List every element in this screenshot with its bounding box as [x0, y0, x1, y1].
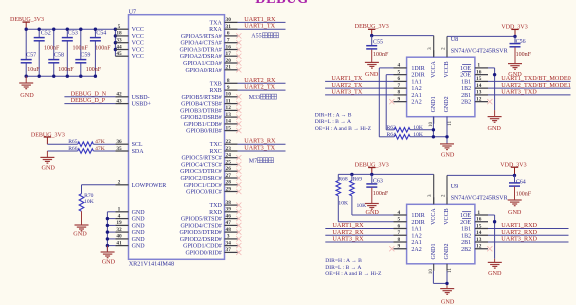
svg-text:GPIOC4/CTSC#: GPIOC4/CTSC#: [181, 163, 222, 169]
wire U8 pin5 to R62 branch: [386, 74, 393, 76]
wire lead C53 lower: [66, 41, 68, 76]
wire cap bus to U7 VCC column: [114, 29, 116, 56]
pin 10 GND1 U8: [428, 96, 437, 127]
svg-text:TXD: TXD: [209, 203, 222, 209]
svg-text:100nF: 100nF: [516, 191, 532, 197]
capacitor C55 plates: [366, 46, 377, 49]
svg-text:10K: 10K: [84, 199, 94, 205]
wire R66 right lead: [93, 150, 115, 152]
svg-text:A55: A55: [251, 34, 261, 40]
wire lead C52 lower: [38, 41, 40, 76]
wire UART2_RXD: [488, 234, 569, 236]
pin 14 GPIOB1/CDB# U7 right: [184, 119, 238, 128]
capacitor C58 plates: [48, 60, 59, 63]
svg-text:3: 3: [427, 194, 433, 197]
svg-text:10: 10: [226, 92, 232, 98]
pin 9 RXB U7 right: [209, 85, 237, 94]
svg-text:6: 6: [227, 31, 230, 37]
pin 7 1A2 U8: [394, 83, 422, 92]
wire U9 OE down: [494, 215, 496, 259]
svg-text:10K: 10K: [413, 125, 423, 131]
junction dot VCCB rail: [513, 35, 516, 38]
wire C64 to ground: [514, 187, 516, 200]
wire C55 top lead: [371, 36, 373, 45]
svg-text:TXC: TXC: [210, 142, 222, 148]
svg-text:12: 12: [476, 96, 482, 102]
wire gnd pin tee y=245.6: [107, 245, 115, 247]
wire UART3_RXD: [488, 241, 569, 243]
junction dot U9 OE: [493, 220, 496, 223]
pin 2 VCCB U8: [440, 47, 450, 78]
svg-text:C63: C63: [373, 179, 383, 185]
note A55 core debug: [251, 33, 278, 40]
junction dot VCCA rail U9 b: [370, 173, 373, 176]
resistor R65 body: [78, 142, 94, 147]
pin 31 RXA U7 right: [209, 24, 237, 33]
svg-text:USBD-: USBD-: [132, 95, 150, 101]
svg-text:48: 48: [226, 227, 232, 233]
svg-text:1B1: 1B1: [461, 79, 471, 85]
junction dot R62/GND1: [432, 128, 435, 131]
svg-text:2A1: 2A1: [411, 93, 421, 99]
svg-text:9: 9: [397, 96, 400, 102]
pin 7 GPIOA4/CTSA# U7 right: [180, 38, 237, 47]
wire R70 to ground: [81, 211, 83, 225]
pin 13 2B1 U9: [461, 237, 488, 246]
wire C56 to ground: [514, 48, 516, 64]
svg-text:6: 6: [397, 223, 400, 229]
svg-text:100nF: 100nF: [73, 45, 89, 51]
svg-text:8: 8: [397, 90, 400, 96]
svg-text:U8: U8: [451, 36, 459, 43]
svg-text:2: 2: [118, 180, 121, 186]
pin 46 GPIOD5/RTSD# U7 right: [181, 213, 238, 222]
svg-text:UART3_TXD: UART3_TXD: [501, 89, 537, 96]
pin 5 2DIR U8: [394, 69, 425, 78]
wire U8 OE down: [494, 68, 496, 110]
svg-text:DIR=L : B → A: DIR=L : B → A: [315, 119, 351, 125]
svg-text:GND: GND: [488, 270, 502, 277]
svg-text:28: 28: [226, 180, 232, 186]
wire UART3_TX: [238, 150, 286, 152]
svg-text:GND2: GND2: [444, 244, 450, 260]
wire VCCB rail U9: [447, 174, 515, 176]
capacitor C54 plates: [90, 38, 101, 41]
wire UART2_TXD/BT_MODE1: [488, 87, 571, 89]
pin 20 GPIOA1/CDA# U7 right: [183, 58, 237, 67]
svg-text:GPIOB5/RTSB#: GPIOB5/RTSB#: [181, 95, 221, 101]
svg-text:24: 24: [226, 153, 232, 159]
pin 5 VCC U7 left: [115, 24, 144, 33]
wire U8 pin1 OE stub: [488, 67, 495, 69]
svg-text:36: 36: [116, 139, 122, 145]
svg-text:GPIOA3/DTRA#: GPIOA3/DTRA#: [179, 48, 221, 54]
pin 16 2OE U9: [460, 217, 488, 226]
svg-text:R64: R64: [387, 132, 397, 138]
svg-text:12: 12: [226, 105, 232, 111]
wire UART3_RX: [238, 143, 286, 145]
no-connect X marks U7 unused GPIO pins: [236, 33, 241, 255]
svg-text:GPIOD1/CDD#: GPIOD1/CDD#: [183, 244, 222, 250]
svg-text:1DIR: 1DIR: [411, 66, 424, 72]
wire U7 gnd bus: [106, 212, 108, 252]
junction dot R64/GND2: [445, 135, 448, 138]
ground decoupling: [19, 83, 33, 89]
pin 37 GPIOD0/RID# U7 right: [185, 247, 237, 256]
wire VCCB rail U8: [447, 35, 515, 37]
svg-text:GND: GND: [441, 152, 455, 159]
wire VCCB drop to U9 pin2: [446, 175, 448, 204]
pin 47 GPIOD4/CTSD# U7 right: [180, 220, 237, 229]
pin 15 1B1 U8: [461, 76, 488, 85]
wire bottom cap bus: [26, 75, 95, 77]
svg-text:GND: GND: [20, 92, 34, 99]
pin 26 GPIOC3/DTRC# U7 right: [180, 166, 237, 175]
svg-text:C59: C59: [80, 52, 90, 58]
svg-text:35: 35: [116, 146, 122, 152]
svg-text:1B1: 1B1: [461, 227, 471, 233]
pin 5 2DIR U9: [394, 217, 425, 226]
svg-text:GND: GND: [508, 209, 522, 216]
pin 13 GPIOB2/DSRB# U7 right: [180, 112, 237, 121]
svg-text:GPIOA1/CDA#: GPIOA1/CDA#: [183, 61, 222, 67]
pin 39 RXD U7 right: [209, 207, 237, 216]
svg-text:25: 25: [226, 159, 232, 165]
pin 40 GND U7 left: [115, 234, 145, 243]
svg-text:RXD: RXD: [209, 210, 222, 216]
wire UART3_TXD: [488, 94, 571, 96]
svg-text:4: 4: [397, 63, 400, 69]
wire UART2_RX: [238, 82, 286, 84]
resistor R66 body: [78, 149, 94, 154]
wire lead C54 lower: [94, 41, 96, 76]
pin 24 GPIOC5/RTSC# U7 right: [181, 153, 237, 162]
pin 9 2A2 U8: [394, 96, 422, 105]
svg-text:2DIR: 2DIR: [411, 73, 424, 79]
svg-text:44: 44: [116, 44, 122, 50]
wire lead C58 upper: [53, 29, 55, 59]
svg-text:20: 20: [226, 58, 232, 64]
svg-text:15: 15: [476, 223, 482, 229]
pin 32 GND U7 left: [115, 227, 145, 236]
svg-text:R62: R62: [387, 125, 397, 131]
svg-text:10K: 10K: [338, 200, 348, 206]
svg-text:17: 17: [226, 51, 232, 57]
svg-text:41: 41: [116, 240, 122, 246]
wire R69 top lead: [351, 174, 353, 180]
wire R65 left lead: [47, 143, 77, 145]
wire lead C52 upper: [38, 29, 40, 37]
svg-text:42: 42: [116, 92, 122, 98]
wire lead C57 upper: [25, 29, 27, 59]
pin 27 GPIOC2/DSRC# U7 right: [180, 173, 237, 182]
svg-text:U9: U9: [451, 183, 459, 190]
pin 8 2A1 U9: [394, 237, 422, 246]
svg-text:VCCB: VCCB: [444, 61, 450, 77]
svg-text:27: 27: [226, 173, 232, 179]
svg-text:26: 26: [226, 166, 232, 172]
wire C64 top lead: [514, 175, 516, 182]
wire UART3_RX to U9: [325, 241, 393, 243]
wire LOWPOWER: [82, 184, 116, 186]
power bar DEBUG_3V3 U9: [368, 168, 375, 175]
wire R64 left lead: [379, 136, 394, 138]
pin 44 VCC U7 left: [115, 44, 144, 53]
svg-text:3: 3: [227, 234, 230, 240]
svg-text:C54: C54: [96, 31, 106, 37]
svg-text:GPIOC5/RTSC#: GPIOC5/RTSC#: [181, 156, 221, 162]
pin 8 TXB U7 right: [210, 78, 238, 87]
svg-text:34: 34: [226, 240, 232, 246]
svg-text:14: 14: [476, 83, 482, 89]
svg-text:14: 14: [476, 230, 482, 236]
wire lead C53 upper: [66, 29, 68, 37]
pin 1 GND U7 left: [115, 207, 145, 216]
pin 11 GND2 U8: [444, 96, 453, 126]
svg-text:100nF: 100nF: [44, 45, 60, 51]
wire R62 right lead: [410, 129, 433, 131]
pin 4 1DIR U8: [394, 63, 425, 72]
svg-text:GPIOC3/DTRC#: GPIOC3/DTRC#: [180, 169, 222, 175]
svg-text:6: 6: [397, 76, 400, 82]
pin 28 GPIOC1/CDC# U7 right: [184, 180, 238, 189]
pin 29 GPIOC0/RIC# U7 right: [186, 186, 237, 195]
ground C63: [365, 204, 379, 210]
wire lead C58 lower: [53, 63, 55, 76]
svg-text:40: 40: [116, 234, 122, 240]
svg-text:R66: R66: [68, 146, 78, 152]
svg-text:C56: C56: [516, 39, 526, 45]
svg-text:TXA: TXA: [209, 20, 222, 26]
pin 18 VCC U7 left: [115, 31, 144, 40]
svg-text:31: 31: [226, 24, 232, 30]
svg-text:UART3_RX: UART3_RX: [332, 236, 364, 243]
svg-text:C55: C55: [373, 39, 383, 45]
svg-text:16: 16: [476, 69, 482, 75]
svg-text:22: 22: [226, 139, 232, 145]
svg-text:11: 11: [447, 268, 453, 273]
svg-text:1A1: 1A1: [411, 227, 421, 233]
wire U8 pin4 to R64 branch: [379, 67, 393, 69]
svg-text:13: 13: [476, 237, 482, 243]
wire top cap bus: [26, 28, 115, 30]
junction dot GND1/R64: [432, 135, 435, 138]
wire DEBUG_D_P: [64, 103, 115, 105]
svg-text:XR21V1414IM48: XR21V1414IM48: [129, 261, 174, 268]
pin 19 GND U7 left: [115, 220, 145, 229]
svg-text:19: 19: [116, 220, 122, 226]
svg-text:2B1: 2B1: [461, 240, 471, 246]
pin 23 RXC U7 right: [209, 146, 237, 155]
svg-text:21: 21: [226, 65, 232, 71]
svg-text:5: 5: [118, 24, 121, 30]
wire C57 bus to ground: [25, 76, 27, 83]
svg-text:GPIOB4/CTSB#: GPIOB4/CTSB#: [181, 102, 222, 108]
ground I2C strap: [40, 157, 54, 163]
wire lead C59 upper: [80, 29, 82, 59]
wire U9 pin5 to R68: [338, 221, 393, 223]
pin 16 GPIOA3/DTRA# U7 right: [179, 44, 237, 53]
ground U8 OE: [488, 117, 502, 123]
pin 14 1B2 U9: [461, 230, 488, 239]
svg-text:1A2: 1A2: [411, 86, 421, 92]
resistor R69 body: [350, 181, 355, 196]
junction dot U8 OE: [493, 73, 496, 76]
no-connect X U8 pin 12 2B2: [487, 99, 492, 104]
resistor R64 body: [394, 135, 410, 140]
svg-text:USBD+: USBD+: [132, 102, 152, 108]
wire U9 GND2 down: [446, 271, 448, 286]
svg-text:11: 11: [447, 121, 453, 126]
svg-text:GPIOD2/DSRD#: GPIOD2/DSRD#: [180, 237, 222, 243]
wire gnd bus to ground: [106, 246, 108, 252]
wire UART1_TX to U8: [325, 80, 393, 82]
svg-text:C52: C52: [41, 31, 51, 37]
svg-text:SCL: SCL: [132, 142, 143, 148]
pin 34 GPIOD1/CDD# U7 right: [183, 240, 237, 249]
note M7 core debug: [249, 158, 274, 165]
svg-text:GPIOD0/RID#: GPIOD0/RID#: [185, 250, 221, 256]
wire GND pin1 stub: [107, 211, 115, 213]
svg-text:100nF: 100nF: [95, 45, 111, 51]
svg-text:GPIOC2/DSRC#: GPIOC2/DSRC#: [180, 176, 221, 182]
svg-text:GND: GND: [365, 71, 379, 78]
svg-text:10K: 10K: [413, 132, 423, 138]
no-connect X U9 pin 12 2B2: [487, 246, 492, 251]
svg-text:4: 4: [118, 213, 121, 219]
svg-text:GND: GND: [102, 259, 116, 266]
capacitor C59 plates: [75, 60, 86, 63]
svg-text:GPIOA2/DSRA#: GPIOA2/DSRA#: [180, 54, 222, 60]
wire U9 pin1 OE stub: [488, 214, 495, 216]
svg-text:C64: C64: [516, 179, 526, 185]
svg-text:100nF: 100nF: [58, 67, 74, 73]
svg-text:GND: GND: [441, 298, 455, 305]
wire gnd pin tee y=225.4: [107, 224, 115, 226]
svg-text:12: 12: [476, 244, 482, 250]
svg-text:VCC: VCC: [132, 27, 144, 33]
svg-text:DIR=L : B → A: DIR=L : B → A: [325, 265, 361, 271]
svg-text:DEBUG: DEBUG: [255, 0, 308, 7]
wire VCCA drop to U9 pin3: [433, 174, 435, 204]
svg-text:GPIOD4/CTSD#: GPIOD4/CTSD#: [180, 223, 221, 229]
wire U8 GND1 down: [432, 117, 434, 137]
pin 11 GPIOB4/CTSB# U7 right: [181, 98, 237, 107]
junction dots VCC column: [114, 34, 117, 51]
wire lead C54 upper: [94, 29, 96, 37]
wire UART2_TX: [238, 89, 286, 91]
svg-text:5: 5: [397, 217, 400, 223]
wire UART1_RX: [238, 21, 286, 23]
svg-text:C58: C58: [54, 52, 64, 58]
svg-text:1A2: 1A2: [411, 233, 421, 239]
power bar DEBUG_3V3 I2C: [44, 137, 51, 144]
svg-text:47: 47: [226, 220, 232, 226]
wire C56 top lead: [514, 36, 516, 43]
wire U8 GND2 down: [446, 117, 448, 144]
pin 48 GPIOD3/DTRD# U7 right: [179, 227, 237, 236]
svg-text:2A2: 2A2: [411, 247, 421, 253]
svg-text:16: 16: [226, 44, 232, 50]
pin 33 VCC U7 left: [115, 38, 144, 47]
wire lead C59 lower: [80, 63, 82, 76]
svg-text:TXB: TXB: [210, 81, 222, 87]
wire R68 bottom lead: [337, 196, 339, 222]
svg-text:33: 33: [116, 38, 122, 44]
wire U8 OE gnd stem: [494, 110, 496, 116]
svg-text:DIR=H : A → B: DIR=H : A → B: [315, 113, 352, 119]
svg-text:R68: R68: [338, 176, 348, 182]
svg-text:GPIOC0/RIC#: GPIOC0/RIC#: [186, 190, 222, 196]
svg-text:38: 38: [226, 200, 232, 206]
junction dot VCCA rail U9 a: [350, 173, 353, 176]
capacitor C57 plates: [21, 60, 32, 63]
pin 43 USBD+ U7 left: [115, 98, 151, 107]
no-connect X U8 pin 9 2A2: [389, 99, 394, 104]
svg-text:UART1_TX: UART1_TX: [244, 23, 275, 30]
svg-text:47K: 47K: [95, 146, 105, 152]
junction dots top cap bus: [25, 28, 118, 31]
junction dot U9 GND: [445, 282, 448, 285]
svg-text:GND: GND: [487, 125, 501, 132]
pin 15 GPIOB0/RIB# U7 right: [186, 125, 237, 134]
transceiver U9 body (SN74AVC4T245RSVR): [407, 204, 475, 263]
svg-text:2A1: 2A1: [411, 240, 421, 246]
svg-text:GPIOB2/DSRB#: GPIOB2/DSRB#: [180, 115, 221, 121]
svg-text:RXB: RXB: [209, 88, 221, 94]
power bar VDD_3V3 U8: [511, 29, 518, 36]
pin 6 GPIOA5/RTSA# U7 right: [181, 31, 238, 40]
svg-text:4: 4: [397, 210, 400, 216]
svg-text:2OE: 2OE: [460, 73, 471, 79]
pin 3 GPIOD2/DSRD# U7 right: [180, 234, 238, 243]
svg-text:10K: 10K: [357, 203, 367, 209]
capacitor C56 plates: [510, 44, 521, 47]
no-connect X U9 pin 9 2A2: [389, 246, 394, 251]
svg-text:GPIOB3/DTRB#: GPIOB3/DTRB#: [180, 108, 222, 114]
wire U9 GND1 down: [432, 271, 434, 284]
svg-text:C53: C53: [68, 31, 78, 37]
pin 13 2B1 U8: [461, 90, 488, 99]
svg-text:GND1: GND1: [431, 96, 437, 112]
svg-text:GND: GND: [132, 223, 146, 229]
pin 4 GND U7 left: [115, 213, 145, 222]
ground R70: [75, 225, 89, 231]
svg-text:GND: GND: [132, 244, 146, 250]
pin 35 SDA U7 left: [115, 146, 144, 155]
ground C56: [508, 64, 522, 70]
svg-text:GPIOA5/RTSA#: GPIOA5/RTSA#: [181, 34, 222, 40]
svg-text:2A2: 2A2: [411, 100, 421, 106]
svg-text:32: 32: [116, 227, 122, 233]
svg-text:SDA: SDA: [132, 149, 145, 155]
power bar VDD_3V3 U9: [511, 167, 518, 175]
svg-text:R65: R65: [68, 139, 78, 145]
svg-text:GND: GND: [132, 237, 146, 243]
pin 1 1OE U9: [460, 210, 488, 219]
wire UART1_TXD/BT_MODE0: [488, 80, 571, 82]
svg-text:VCCA: VCCA: [431, 60, 437, 77]
svg-text:3: 3: [427, 47, 433, 50]
svg-text:1B2: 1B2: [461, 233, 471, 239]
wire VCCA rail U9: [338, 173, 433, 175]
svg-text:R69: R69: [353, 176, 363, 182]
wire U9 pin4 to R69: [352, 214, 394, 216]
svg-text:RXA: RXA: [209, 27, 222, 33]
wire R66 left lead: [47, 150, 77, 152]
svg-text:1A1: 1A1: [411, 79, 421, 85]
svg-text:GPIOA0/RIA#: GPIOA0/RIA#: [185, 68, 221, 74]
